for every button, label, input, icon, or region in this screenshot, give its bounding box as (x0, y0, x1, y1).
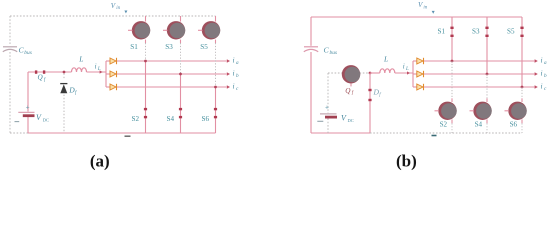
svg-text:+: + (26, 103, 30, 111)
svg-text:f: f (75, 91, 77, 96)
svg-text:S6: S6 (202, 115, 210, 123)
wire: leg 3 dotted segment (a) (215, 43, 217, 87)
battery V_DC (b) plates (320, 113, 337, 115)
svg-text:i: i (541, 81, 543, 90)
wire: main horizontal from battery to inductor (28, 71, 72, 73)
label C_bus (b) (324, 46, 338, 56)
svg-text:c: c (544, 86, 547, 92)
capacitor C_bus branch (dashed, inactive) (10, 16, 216, 133)
arrowhead i_L (b) (407, 71, 410, 74)
node: junction leg2-phase b (b) (486, 73, 489, 76)
wire: leg 1 dotted segment (b) (451, 61, 453, 98)
leg 3 (a): tick below circle (215, 40, 217, 43)
svg-text:i: i (541, 68, 543, 77)
svg-text:c: c (236, 86, 239, 92)
diode to phase a (a) (106, 58, 117, 64)
node: junction leg3-phase c (a) (214, 86, 217, 89)
wire: left rail upper (b, solid) (311, 17, 522, 133)
arrowhead i_a (a) (227, 59, 230, 63)
switch S3 left tick (a) (163, 29, 167, 31)
svg-text:i: i (233, 68, 235, 77)
svg-text:b: b (544, 73, 547, 79)
inductor L (a) (72, 68, 87, 72)
wire: D_f node to inductor (b) (370, 72, 380, 74)
svg-text:S4: S4 (167, 115, 175, 123)
wire: leg 3 dotted segment (b) (521, 87, 523, 98)
wire: diode bus vertical (b) (412, 61, 414, 87)
label i_c (b) (541, 81, 548, 92)
svg-text:L: L (405, 67, 409, 72)
battery V_DC (a) plates (18, 111, 34, 113)
svg-text:S3: S3 (472, 28, 480, 36)
label D_f (b) (373, 88, 382, 99)
label V_in (a) (111, 2, 121, 11)
switch S5 left tick (a) (198, 29, 202, 31)
svg-text:f: f (44, 78, 46, 83)
wire: bottom rail left solid segment (b) (311, 132, 370, 134)
wire: leg 3 dotted to bottom rail (b) (521, 123, 523, 133)
wire: left rail upper segment (9, 16, 11, 46)
svg-text:Q: Q (38, 74, 44, 82)
wire: dashed horizontal battery to Q_f (b) (328, 72, 343, 74)
svg-text:i: i (403, 63, 405, 71)
capacitor C_bus plates (b) (304, 47, 318, 52)
label V_in (b) (418, 1, 428, 10)
node: junction leg2-phase b (a) (179, 73, 182, 76)
label Q_f (b) (345, 87, 353, 96)
diode to phase c (b) (413, 84, 424, 90)
wire: leg 1 dotted segment (a) (145, 43, 147, 61)
node: junction D_f (b) (369, 72, 372, 75)
wire: leg 1 lower (a, solid) (145, 61, 147, 133)
node: junction dot at D_f branch (a) (63, 71, 66, 74)
svg-text:bus: bus (330, 50, 338, 56)
svg-text:Q: Q (345, 87, 351, 95)
switch S6 ticks (a) (214, 108, 217, 110)
arrowhead i_b (b) (535, 72, 538, 76)
leg 1 (a): tick from top rail (145, 16, 147, 22)
leg 2 (a): tick below circle (180, 40, 182, 43)
svg-text:i: i (541, 55, 543, 64)
svg-text:V: V (36, 113, 42, 122)
battery minus sign (b) (317, 120, 323, 122)
stray caption dash (b) (432, 135, 437, 137)
label C_bus (a) (19, 46, 32, 56)
label V_DC (b) (341, 114, 354, 124)
wire: inductor to diode bus (87, 71, 107, 73)
svg-text:i: i (233, 81, 235, 90)
wire: phase line a (a) (117, 60, 227, 62)
leg 2 (a): tick from top rail (180, 16, 182, 22)
capacitor C_bus plates (a) (3, 47, 17, 52)
svg-text:i: i (95, 63, 97, 71)
arrowhead i_c (a) (227, 85, 230, 89)
wire: phase line b (a) (117, 73, 227, 75)
label i_L (a) (95, 63, 101, 73)
leg 3 (b): tick below circle (521, 120, 523, 124)
wire: top rail (dashed) (10, 15, 216, 17)
switch S4 ticks (a) (179, 108, 182, 110)
wire: phase line a (b) (424, 60, 535, 62)
switch S5 fault circle (a) (202, 21, 220, 39)
svg-text:S6: S6 (510, 120, 518, 128)
svg-text:f: f (352, 91, 354, 96)
svg-text:S2: S2 (132, 115, 140, 123)
svg-text:a: a (544, 60, 547, 66)
diode to phase b (b) (413, 71, 424, 77)
wire: phase line c (b) (424, 86, 535, 88)
label i_L (b) (403, 63, 409, 73)
svg-text:DC: DC (348, 118, 354, 123)
switch S6 left tick (b) (505, 110, 509, 112)
wire: top rail (b) (311, 16, 522, 18)
wire: leg 1 upper (b, solid) (451, 17, 453, 61)
svg-text:S3: S3 (165, 43, 173, 51)
svg-text:a: a (236, 60, 239, 66)
leg 3 (b): tick above circle (521, 98, 523, 102)
stray caption dash (a) (125, 135, 131, 137)
switch S4 left tick (b) (470, 110, 474, 112)
switch S3 fault circle (a) (167, 21, 185, 39)
arrowhead i_c (b) (535, 85, 538, 89)
switch S1 ticks (b) (450, 27, 453, 29)
svg-text:L: L (383, 55, 388, 64)
battery minus sign (a) (15, 121, 20, 123)
arrowhead i_b (a) (227, 72, 230, 76)
svg-text:+: + (325, 103, 329, 111)
leg 1 (b): tick below circle (451, 120, 453, 124)
diode to phase a (b) (413, 58, 424, 64)
arrowhead i_L (a) (100, 70, 103, 73)
diode to phase c (a) (106, 84, 117, 90)
svg-text:bus: bus (24, 50, 32, 56)
svg-text:f: f (379, 93, 381, 98)
switch S6 fault circle (b) (508, 102, 526, 120)
svg-text:S4: S4 (475, 120, 483, 128)
wire: phase line c (a) (117, 86, 227, 88)
wire: phase line b (b) (424, 73, 535, 75)
svg-text:S1: S1 (438, 28, 446, 36)
diode D_f (a) (60, 84, 67, 94)
node: junction leg3-phase c (b) (521, 86, 524, 89)
wire: leg 3 lower (a, solid) (215, 87, 217, 133)
wire: diode bus vertical (a) (105, 61, 107, 87)
arrowhead i_a (b) (535, 59, 538, 63)
label i_b (b) (541, 68, 548, 79)
wire: bottom-left dashed segment (10, 132, 28, 134)
wire: bottom rail dashed segment (b) (370, 132, 522, 134)
wire: leg 2 upper (b, solid) (486, 17, 488, 74)
diode D_f ticks (b) (368, 89, 371, 91)
svg-text:S5: S5 (200, 43, 208, 51)
svg-text:DC: DC (43, 118, 49, 123)
switch S2 ticks (a) (144, 108, 147, 110)
switch S2 fault circle (b) (438, 102, 456, 120)
wire: leg 2 dotted to bottom rail (b) (486, 123, 488, 133)
leg 1 (b): tick above circle (451, 98, 453, 102)
wire: dashed Q_f to D_f node (b) (360, 72, 371, 74)
svg-text:b: b (236, 73, 239, 79)
label i_c (a) (233, 81, 240, 92)
diode D_f branch wires (a, dotted) (63, 74, 65, 134)
switch Q_f ticks (a) (35, 70, 37, 73)
svg-text:V: V (341, 114, 347, 123)
svg-text:S1: S1 (130, 43, 138, 51)
battery V_DC branch (b, dashed) (328, 73, 370, 133)
label i_b (a) (233, 68, 240, 79)
wire: bottom rail (a) (28, 132, 216, 134)
svg-text:in: in (116, 6, 120, 11)
wire: leg 2 dotted segment (b) (486, 74, 488, 98)
switch S3 ticks (b) (485, 27, 488, 29)
svg-text:(a): (a) (90, 151, 110, 170)
svg-text:in: in (423, 6, 427, 11)
leg 2 (b): tick above circle (486, 98, 488, 102)
leg 3 (a): tick from top rail (215, 16, 217, 22)
switch S1 left tick (a) (128, 29, 132, 31)
node: junction leg1-phase a (a) (144, 60, 147, 63)
wire: leg 2 lower (a, solid) (180, 74, 182, 133)
label D_f (a) (68, 86, 77, 97)
Q_f circle bottom tick (b) (350, 84, 352, 87)
wire: leg 3 upper (b, solid) (521, 17, 523, 87)
label i_a (a) (233, 55, 240, 66)
svg-text:S2: S2 (440, 120, 448, 128)
svg-text:L: L (78, 54, 83, 63)
diode D_f branch (b, solid) (369, 73, 371, 133)
wire: leg 1 dotted to bottom rail (b) (451, 123, 453, 133)
battery V_DC (a) wires (28, 72, 216, 133)
svg-text:S5: S5 (507, 28, 515, 36)
inductor L (b) (380, 69, 395, 73)
switch Q_f fault circle (b) (342, 65, 360, 83)
diode to phase b (a) (106, 71, 117, 77)
svg-text:(b): (b) (396, 151, 417, 170)
svg-text:i: i (233, 55, 235, 64)
wire: left rail lower segment (9, 52, 11, 133)
leg 2 (b): tick below circle (486, 120, 488, 124)
wire: leg 2 dotted segment (a) (180, 43, 182, 74)
label Q_f (a) (38, 74, 46, 83)
node: junction leg1-phase a (b) (451, 60, 454, 63)
arrow marker under V_in (a) (124, 11, 127, 14)
label V_DC (a) (36, 113, 49, 123)
switch S1 fault circle (a) (132, 21, 150, 39)
leg 1 (a): tick below circle (145, 40, 147, 43)
switch S5 ticks (b) (520, 27, 523, 29)
switch S4 fault circle (b) (473, 102, 491, 120)
wire: inductor to bus (b) (395, 72, 413, 74)
arrow marker under V_in (b) (432, 11, 435, 14)
label i_a (b) (541, 55, 548, 66)
switch S2 left tick (b) (435, 110, 439, 112)
